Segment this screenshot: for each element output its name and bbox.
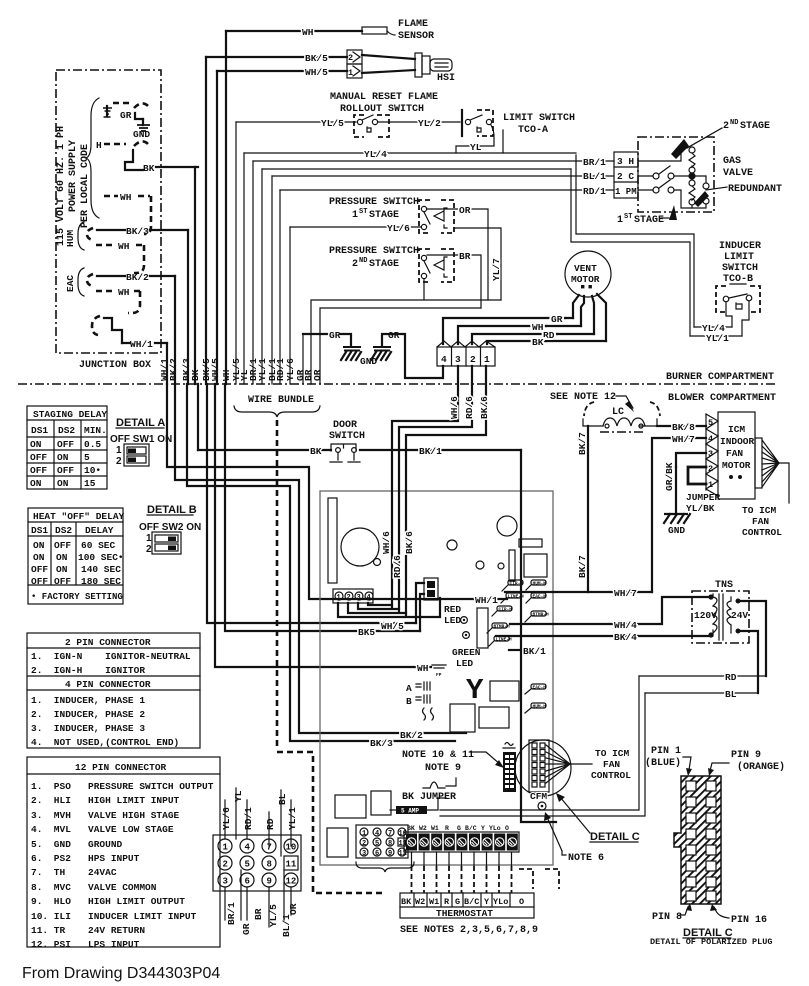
svg-text:BURNER COMPARTMENT: BURNER COMPARTMENT: [666, 372, 774, 383]
svg-text:RD/6: RD/6: [392, 555, 403, 578]
svg-text:BK: BK: [401, 897, 412, 907]
svg-text:3 H: 3 H: [617, 156, 634, 167]
svg-text:3: 3: [362, 850, 366, 858]
svg-text:1: 1: [362, 830, 366, 838]
svg-text:WIRE BUNDLE: WIRE BUNDLE: [248, 395, 314, 406]
svg-text:OFF: OFF: [31, 576, 48, 587]
svg-text:140 SEC: 140 SEC: [81, 564, 121, 575]
svg-text:CONTROL: CONTROL: [591, 770, 631, 781]
svg-text:DS2: DS2: [58, 425, 75, 436]
svg-text:11: 11: [286, 860, 297, 870]
svg-text:2: 2: [146, 544, 152, 555]
svg-text:4. MVL VALVE LOW STAGE: 4. MVL VALVE LOW STAGE: [31, 824, 174, 835]
svg-text:FP: FP: [436, 672, 442, 678]
svg-text:G: G: [455, 897, 460, 907]
svg-text:OFF: OFF: [54, 540, 71, 551]
svg-text:WH: WH: [302, 27, 314, 38]
svg-text:7. TH 24VAC: 7. TH 24VAC: [31, 867, 117, 878]
svg-text:3: 3: [357, 594, 361, 602]
svg-text:YL/7: YL/7: [491, 258, 502, 281]
svg-text:OR: OR: [459, 205, 471, 216]
svg-text:BK/8: BK/8: [672, 422, 695, 433]
svg-text:115 VOLT 60 HZ. 1 PH: 115 VOLT 60 HZ. 1 PH: [56, 126, 67, 246]
svg-text:MOTOR: MOTOR: [722, 460, 751, 471]
svg-text:12. PSI LPS INPUT: 12. PSI LPS INPUT: [31, 939, 140, 950]
svg-text:PIN 8: PIN 8: [652, 912, 682, 923]
svg-text:BK/7: BK/7: [577, 555, 588, 578]
svg-text:2: 2: [223, 860, 228, 870]
svg-text:TO ICM: TO ICM: [742, 505, 777, 516]
svg-text:• FACTORY SETTING: • FACTORY SETTING: [31, 592, 123, 602]
svg-text:PIN 16: PIN 16: [731, 915, 767, 926]
svg-text:POWER SUPPLY: POWER SUPPLY: [68, 140, 79, 212]
svg-text:MOTOR: MOTOR: [571, 274, 600, 285]
svg-text:2. INDUCER, PHASE 2: 2. INDUCER, PHASE 2: [31, 709, 145, 720]
svg-text:LED: LED: [456, 658, 473, 669]
svg-text:OFF: OFF: [54, 576, 71, 587]
svg-text:BK5: BK5: [358, 627, 375, 638]
svg-text:CONTROL: CONTROL: [742, 527, 782, 538]
svg-text:NOTE 9: NOTE 9: [425, 763, 461, 774]
svg-text:ON: ON: [56, 552, 68, 563]
svg-text:1: 1: [484, 354, 490, 365]
svg-text:RD: RD: [265, 818, 276, 830]
svg-text:PIN 1: PIN 1: [651, 746, 681, 757]
svg-text:BK/3: BK/3: [370, 738, 393, 749]
svg-text:A: A: [406, 683, 412, 694]
svg-text:CIR-H: CIR-H: [499, 607, 513, 613]
svg-text:3: 3: [708, 449, 713, 459]
svg-text:2: 2: [708, 464, 713, 474]
svg-text:OFF: OFF: [57, 465, 74, 476]
svg-text:ND: ND: [359, 257, 367, 265]
svg-text:WH/1: WH/1: [130, 339, 153, 350]
svg-text:6: 6: [245, 877, 250, 887]
svg-text:WH/4: WH/4: [614, 620, 637, 631]
svg-text:INDOOR: INDOOR: [720, 436, 755, 447]
svg-text:RD/1: RD/1: [243, 807, 254, 830]
svg-text:DETAIL A: DETAIL A: [116, 417, 165, 429]
svg-text:SEE NOTES 2,3,5,6,7,8,9: SEE NOTES 2,3,5,6,7,8,9: [400, 925, 538, 936]
svg-text:H: H: [96, 140, 102, 151]
svg-text:WH/5: WH/5: [305, 67, 328, 78]
svg-text:5: 5: [375, 840, 379, 848]
svg-text:LINE-H: LINE-H: [496, 637, 513, 643]
svg-text:2 PIN CONNECTOR: 2 PIN CONNECTOR: [65, 637, 151, 648]
svg-text:NOTE 6: NOTE 6: [568, 853, 604, 864]
svg-text:2. IGN-H IGNITOR: 2. IGN-H IGNITOR: [31, 665, 145, 676]
svg-text:4 PIN CONNECTOR: 4 PIN CONNECTOR: [65, 679, 151, 690]
svg-text:RD/1: RD/1: [583, 186, 606, 197]
svg-text:3. MVH VALVE HIGH STAGE: 3. MVH VALVE HIGH STAGE: [31, 810, 180, 821]
svg-text:24V: 24V: [731, 610, 748, 621]
svg-text:GAS: GAS: [723, 156, 741, 167]
svg-text:LED: LED: [444, 615, 461, 626]
svg-text:ST: ST: [624, 213, 632, 221]
svg-text:WH/5: WH/5: [381, 621, 404, 632]
svg-text:8: 8: [388, 840, 392, 848]
svg-text:EAC-H: EAC-H: [533, 685, 547, 691]
svg-text:1: 1: [348, 68, 353, 78]
svg-text:OFF: OFF: [30, 452, 47, 463]
svg-text:180 SEC: 180 SEC: [81, 576, 121, 587]
svg-text:FAN: FAN: [752, 516, 769, 527]
svg-text:YL: YL: [233, 790, 244, 802]
svg-text:B/C: B/C: [465, 825, 477, 832]
svg-text:2: 2: [470, 354, 476, 365]
svg-text:3: 3: [455, 354, 461, 365]
svg-text:DETAIL B: DETAIL B: [147, 504, 197, 516]
svg-text:YL/1: YL/1: [287, 807, 298, 830]
svg-text:GND: GND: [360, 356, 377, 367]
svg-text:BTMR-H: BTMR-H: [494, 624, 511, 630]
svg-text:RD: RD: [725, 672, 737, 683]
svg-text:OFF SW1 ON: OFF SW1 ON: [110, 434, 172, 445]
svg-text:5 AMP: 5 AMP: [401, 808, 419, 815]
svg-text:OFF: OFF: [30, 465, 47, 476]
svg-text:1: 1: [337, 594, 341, 602]
svg-text:BK/2: BK/2: [126, 272, 149, 283]
svg-text:LIMIT SWITCH: LIMIT SWITCH: [503, 113, 575, 124]
svg-text:OFF: OFF: [31, 564, 48, 575]
svg-text:CFM: CFM: [530, 791, 547, 802]
svg-text:Y: Y: [481, 825, 485, 832]
svg-text:STAGING DELAY: STAGING DELAY: [33, 409, 107, 420]
svg-text:SENSOR: SENSOR: [398, 31, 434, 42]
svg-text:ON: ON: [33, 540, 45, 551]
svg-text:4: 4: [375, 830, 379, 838]
svg-text:GR: GR: [388, 330, 400, 341]
svg-text:YL/BK: YL/BK: [686, 503, 715, 514]
svg-text:10. ILI INDUCER LIMIT INPUT: 10. ILI INDUCER LIMIT INPUT: [31, 911, 197, 922]
svg-text:BL/1: BL/1: [583, 171, 606, 182]
svg-text:2: 2: [362, 840, 366, 848]
svg-text:EAC-N: EAC-N: [533, 594, 547, 600]
svg-text:HEAT "OFF" DELAY: HEAT "OFF" DELAY: [33, 511, 125, 522]
svg-text:YL/5: YL/5: [321, 118, 344, 129]
svg-text:W2: W2: [419, 825, 427, 832]
svg-text:ICM: ICM: [728, 424, 745, 435]
svg-text:O: O: [519, 897, 524, 907]
svg-text:BK: BK: [143, 163, 155, 174]
svg-text:10: 10: [399, 830, 407, 838]
svg-text:WH: WH: [118, 287, 130, 298]
svg-text:DETAIL C: DETAIL C: [590, 831, 640, 843]
svg-text:8. MVC VALVE COMMON: 8. MVC VALVE COMMON: [31, 882, 157, 893]
svg-text:DETAIL OF POLARIZED PLUG: DETAIL OF POLARIZED PLUG: [650, 937, 772, 947]
svg-text:OR: OR: [312, 369, 323, 381]
svg-text:1: 1: [223, 843, 229, 853]
svg-text:4. NOT USED,(CONTROL END): 4. NOT USED,(CONTROL END): [31, 737, 179, 748]
svg-text:ROLLOUT SWITCH: ROLLOUT SWITCH: [340, 104, 424, 115]
svg-text:5: 5: [708, 418, 713, 428]
svg-text:NOTE 10 & 11: NOTE 10 & 11: [402, 750, 474, 761]
svg-text:60 SEC: 60 SEC: [81, 540, 116, 551]
svg-text:DELAY: DELAY: [85, 525, 114, 536]
svg-text:B/C: B/C: [464, 897, 479, 907]
svg-text:120V: 120V: [694, 610, 717, 621]
svg-text:BLOWER COMPARTMENT: BLOWER COMPARTMENT: [668, 393, 776, 404]
svg-text:HUM-N: HUM-N: [533, 581, 547, 587]
svg-text:ST: ST: [359, 208, 367, 216]
svg-text:TNS: TNS: [715, 580, 733, 591]
svg-text:HUM: HUM: [65, 230, 76, 247]
svg-text:15: 15: [84, 478, 96, 489]
svg-text:LC: LC: [612, 407, 624, 418]
svg-text:2. HLI HIGH LIMIT INPUT: 2. HLI HIGH LIMIT INPUT: [31, 795, 180, 806]
svg-text:0.5: 0.5: [84, 439, 101, 450]
svg-text:B: B: [406, 696, 412, 707]
svg-text:BK/7: BK/7: [577, 432, 588, 455]
svg-text:100 SEC•: 100 SEC•: [78, 552, 124, 563]
svg-text:GR: GR: [329, 330, 341, 341]
svg-text:DS1: DS1: [31, 425, 48, 436]
svg-text:ON: ON: [56, 564, 68, 575]
svg-text:WH/1: WH/1: [475, 595, 498, 606]
svg-text:YL/6: YL/6: [221, 807, 232, 830]
svg-text:FLAME: FLAME: [398, 19, 428, 30]
svg-text:TCO-A: TCO-A: [518, 125, 548, 136]
svg-text:PRESSURE SWITCH: PRESSURE SWITCH: [329, 197, 419, 208]
svg-text:O: O: [505, 825, 509, 832]
svg-text:STAGE: STAGE: [369, 210, 399, 221]
svg-text:9: 9: [388, 850, 392, 858]
svg-text:STAGE: STAGE: [369, 259, 399, 270]
svg-text:1: 1: [146, 533, 152, 544]
svg-text:1. PSO PRESSURE SWITCH OUTP: 1. PSO PRESSURE SWITCH OUTPUT: [31, 781, 214, 792]
svg-text:W1: W1: [429, 897, 439, 907]
svg-text:ON: ON: [57, 452, 69, 463]
svg-text:YL/4: YL/4: [364, 149, 387, 160]
svg-text:HSI: HSI: [437, 73, 455, 84]
svg-text:(BLUE): (BLUE): [645, 757, 681, 769]
svg-text:WH: WH: [417, 663, 429, 674]
svg-text:From Drawing D344303P04: From Drawing D344303P04: [22, 965, 220, 982]
svg-text:ON: ON: [33, 552, 45, 563]
svg-text:BK/3: BK/3: [126, 226, 149, 237]
svg-text:6: 6: [375, 850, 379, 858]
svg-text:RD: RD: [543, 330, 555, 341]
svg-text:BR/1: BR/1: [583, 157, 606, 168]
svg-text:10•: 10•: [84, 465, 101, 476]
svg-text:DOOR: DOOR: [333, 420, 357, 431]
svg-text:VENT: VENT: [574, 263, 597, 274]
svg-text:2: 2: [723, 121, 729, 132]
svg-text:4: 4: [367, 594, 371, 602]
svg-text:LIMIT: LIMIT: [724, 252, 754, 263]
svg-text:12: 12: [286, 877, 297, 887]
svg-text:12 PIN CONNECTOR: 12 PIN CONNECTOR: [75, 762, 167, 773]
svg-text:W1: W1: [431, 825, 439, 832]
svg-text:JUNCTION BOX: JUNCTION BOX: [79, 360, 151, 371]
svg-text:1 PM: 1 PM: [615, 187, 637, 197]
svg-text:BR: BR: [253, 908, 264, 920]
svg-text:WH/7: WH/7: [614, 588, 637, 599]
svg-text:BK/2: BK/2: [400, 730, 423, 741]
svg-text:YLo: YLo: [489, 825, 501, 832]
svg-text:WH/7: WH/7: [672, 434, 695, 445]
svg-text:PRESSURE SWITCH: PRESSURE SWITCH: [329, 246, 419, 257]
svg-text:1: 1: [352, 210, 358, 221]
svg-text:WH: WH: [532, 322, 544, 333]
svg-text:STAGE: STAGE: [740, 121, 770, 132]
svg-text:2: 2: [352, 259, 358, 270]
svg-text:9: 9: [267, 877, 272, 887]
svg-text:EAC: EAC: [65, 275, 76, 292]
svg-text:BK/4: BK/4: [614, 632, 637, 643]
svg-text:WH: WH: [118, 241, 130, 252]
svg-text:8: 8: [267, 860, 272, 870]
svg-text:GREEN: GREEN: [452, 647, 481, 658]
svg-text:5: 5: [84, 452, 90, 463]
svg-text:9. HLO HIGH LIMIT OUTPUT: 9. HLO HIGH LIMIT OUTPUT: [31, 896, 185, 907]
svg-text:7: 7: [388, 830, 392, 838]
svg-text:WH: WH: [120, 192, 132, 203]
svg-text:DS2: DS2: [55, 525, 72, 536]
svg-text:R: R: [444, 897, 450, 907]
svg-text:BK: BK: [407, 825, 415, 832]
svg-text:11. TR 24V RETURN: 11. TR 24V RETURN: [31, 925, 145, 936]
svg-text:BK JUMPER: BK JUMPER: [402, 792, 456, 803]
svg-text:OR: OR: [288, 903, 299, 915]
svg-text:3. INDUCER, PHASE 3: 3. INDUCER, PHASE 3: [31, 723, 145, 734]
svg-text:WH/5: WH/5: [210, 358, 221, 381]
svg-text:PER LOCAL CODE: PER LOCAL CODE: [80, 144, 91, 228]
svg-text:BK/5: BK/5: [305, 53, 328, 64]
svg-text:GR: GR: [120, 110, 132, 121]
svg-text:PIN 9: PIN 9: [731, 750, 761, 761]
svg-text:ON: ON: [30, 478, 42, 489]
svg-text:TCO-B: TCO-B: [723, 274, 753, 285]
svg-text:BL: BL: [277, 793, 288, 805]
svg-text:TO ICM: TO ICM: [595, 748, 630, 759]
svg-text:GR: GR: [241, 923, 252, 935]
svg-text:1: 1: [116, 445, 122, 456]
svg-text:BL/1: BL/1: [281, 914, 292, 937]
svg-text:OFF: OFF: [57, 439, 74, 450]
svg-text:JUMPER: JUMPER: [686, 492, 721, 503]
svg-text:GR/BK: GR/BK: [664, 462, 675, 491]
svg-text:BTMR-H: BTMR-H: [533, 612, 550, 618]
svg-text:MANUAL RESET FLAME: MANUAL RESET FLAME: [330, 92, 438, 103]
svg-text:YL/1: YL/1: [706, 333, 729, 344]
svg-text:BK: BK: [310, 446, 322, 457]
svg-text:GND: GND: [668, 525, 685, 536]
svg-text:YL: YL: [470, 142, 482, 153]
svg-text:BK/1: BK/1: [419, 446, 442, 457]
svg-text:1. INDUCER, PHASE 1: 1. INDUCER, PHASE 1: [31, 695, 145, 706]
svg-text:12: 12: [399, 850, 407, 858]
svg-text:4: 4: [245, 843, 251, 853]
svg-text:SWITCH: SWITCH: [329, 431, 365, 442]
svg-text:5: 5: [245, 860, 250, 870]
svg-text:MIN.: MIN.: [84, 425, 107, 436]
svg-text:BR: BR: [459, 251, 471, 262]
svg-text:BK: BK: [532, 337, 544, 348]
svg-text:INDUCER: INDUCER: [719, 241, 761, 252]
svg-text:VALVE: VALVE: [723, 168, 753, 179]
svg-text:W2: W2: [415, 897, 425, 907]
svg-text:BK/1: BK/1: [523, 646, 546, 657]
svg-text:BL: BL: [725, 689, 737, 700]
svg-text:2 C: 2 C: [617, 171, 634, 182]
svg-text:RD/6: RD/6: [464, 396, 475, 419]
svg-text:5. GND GROUND: 5. GND GROUND: [31, 839, 123, 850]
svg-text:THERMOSTAT: THERMOSTAT: [436, 908, 493, 919]
svg-text:1: 1: [708, 480, 713, 490]
svg-text:YL/5: YL/5: [268, 904, 279, 927]
svg-text:DS1: DS1: [31, 525, 48, 536]
svg-text:2: 2: [347, 594, 351, 602]
svg-text:Y: Y: [466, 674, 484, 707]
svg-text:6. PS2 HPS INPUT: 6. PS2 HPS INPUT: [31, 853, 140, 864]
svg-text:SEE NOTE 12: SEE NOTE 12: [550, 392, 616, 403]
svg-text:ND: ND: [730, 119, 738, 127]
svg-text:1. IGN-N IGNITOR-NEUTRAL: 1. IGN-N IGNITOR-NEUTRAL: [31, 651, 191, 662]
svg-text:HUM-H: HUM-H: [533, 704, 547, 710]
svg-text:4: 4: [708, 434, 713, 444]
svg-text:(ORANGE): (ORANGE): [737, 761, 785, 773]
svg-text:BK/6: BK/6: [479, 396, 490, 419]
svg-text:4: 4: [441, 354, 447, 365]
svg-text:2: 2: [116, 456, 122, 467]
svg-text:11: 11: [399, 840, 407, 848]
svg-text:SWITCH: SWITCH: [722, 263, 758, 274]
svg-text:WH/6: WH/6: [381, 531, 392, 554]
svg-text:ON: ON: [30, 439, 42, 450]
svg-text:GR: GR: [551, 314, 563, 325]
svg-text:YL/2: YL/2: [418, 118, 441, 129]
svg-text:BK/2: BK/2: [168, 358, 179, 381]
svg-text:YLo: YLo: [493, 897, 508, 907]
svg-text:G: G: [457, 825, 461, 832]
svg-text:WH/6: WH/6: [449, 396, 460, 419]
svg-text:Y: Y: [484, 897, 490, 907]
svg-text:RED: RED: [444, 604, 461, 615]
svg-text:STAGE: STAGE: [634, 215, 664, 226]
svg-text:ON: ON: [57, 478, 69, 489]
svg-text:YL/6: YL/6: [387, 223, 410, 234]
svg-text:OFF SW2 ON: OFF SW2 ON: [139, 522, 201, 533]
svg-text:BR/1: BR/1: [226, 902, 237, 925]
svg-text:BK/6: BK/6: [404, 531, 415, 554]
svg-text:2: 2: [348, 53, 353, 63]
svg-text:R: R: [445, 825, 449, 832]
svg-text:3: 3: [223, 877, 228, 887]
svg-text:1: 1: [617, 215, 623, 226]
svg-text:FAN: FAN: [603, 759, 620, 770]
svg-text:FAN: FAN: [726, 448, 743, 459]
svg-text:REDUNDANT: REDUNDANT: [728, 184, 782, 195]
